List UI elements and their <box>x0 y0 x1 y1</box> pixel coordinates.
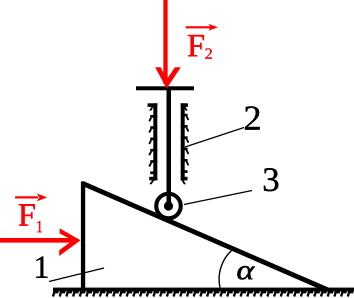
rod (plunger of member 2) <box>167 90 172 203</box>
force F1 arrowhead <box>59 228 80 256</box>
ground line <box>53 288 354 292</box>
leader line 2 <box>185 128 244 148</box>
wedge 1: hypotenuse <box>83 184 328 291</box>
label F2 subscript 2 <box>205 48 212 58</box>
roller 3 interior <box>156 194 181 219</box>
vector bar arrowhead over F2 <box>209 24 219 31</box>
left rail top cap <box>148 103 158 107</box>
label F1 subscript 1 <box>37 221 42 232</box>
right guide rail <box>181 103 188 184</box>
left rail teeth <box>149 116 157 173</box>
label F2 with vector arrow <box>186 24 218 59</box>
label F1 letter F <box>19 204 35 225</box>
force F1 shaft <box>0 238 73 243</box>
right rail teeth <box>181 115 189 172</box>
force F2 shaft <box>163 0 167 84</box>
label 2 <box>245 106 260 129</box>
right rail bottom cap tail <box>182 180 187 184</box>
angle arc <box>219 248 234 288</box>
force F2 arrow <box>155 0 181 89</box>
wedge 1: left vertical edge <box>81 181 85 291</box>
right rail top cap tail <box>184 107 188 111</box>
leader line 3 <box>184 191 252 205</box>
label F1 with vector arrow <box>15 193 47 232</box>
label 1 <box>36 257 47 278</box>
ground hatching <box>53 292 353 296</box>
right rail bar <box>181 103 185 180</box>
force F2 arrowhead <box>155 67 181 88</box>
vector bar line over F1 <box>15 196 38 198</box>
left rail bottom cap tail <box>149 180 154 184</box>
left guide rail <box>148 103 158 184</box>
rod cap bar <box>136 86 194 90</box>
roller 3 center pin <box>164 201 173 210</box>
right rail top cap <box>181 103 188 107</box>
vector bar line over F2 <box>186 26 211 28</box>
force F1 arrow <box>0 228 81 256</box>
label F2 letter F <box>188 35 204 56</box>
roller 3 outer ring <box>156 194 181 219</box>
label 3 <box>264 168 278 191</box>
leader line 1 <box>49 268 104 282</box>
angle label alpha <box>237 266 254 279</box>
left rail bar <box>153 103 157 180</box>
vector bar arrowhead over F1 <box>37 193 47 201</box>
rod lower end inside roller <box>167 188 172 206</box>
right rail bottom cap <box>181 177 188 181</box>
left rail top cap tail <box>149 107 153 111</box>
left rail bottom cap <box>149 177 157 181</box>
